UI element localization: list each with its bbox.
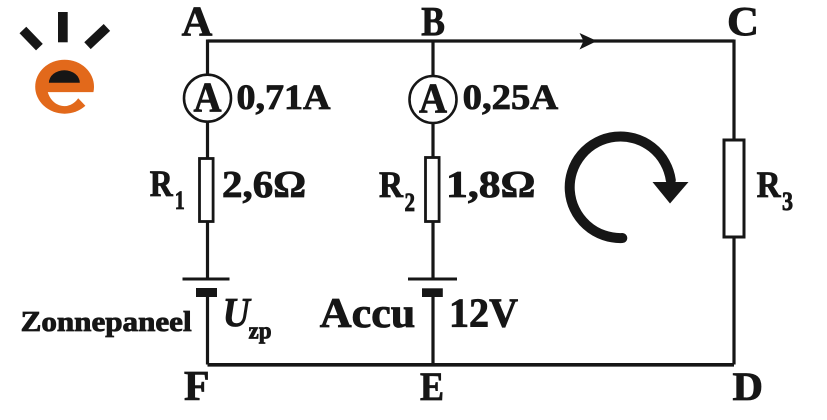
wire R3 to D: [732, 237, 735, 365]
ammeter A1: [184, 75, 231, 122]
svg-text:1: 1: [175, 186, 185, 215]
svg-text:D: D: [733, 364, 764, 409]
resistor R3 label: [757, 165, 793, 216]
resistor R2 label: [379, 165, 415, 217]
wire R1 to battery Uzp: [206, 222, 209, 280]
svg-text:12V: 12V: [449, 290, 518, 336]
label Uzp: [223, 289, 272, 345]
svg-text:R: R: [150, 164, 174, 205]
current direction arrow on wire B-C: [580, 33, 598, 50]
svg-text:C: C: [727, 0, 759, 44]
svg-text:Zonnepaneel: Zonnepaneel: [21, 307, 192, 338]
wire bottom F-E-D: [208, 363, 735, 367]
svg-text:A: A: [194, 76, 223, 122]
logo ray left: [23, 30, 40, 47]
wire B to ammeter A2: [431, 40, 434, 77]
wire R2 to battery Accu: [431, 222, 434, 280]
mesh current arrow (clockwise): [570, 136, 689, 238]
resistor R1: [200, 159, 214, 222]
logo e: [35, 60, 95, 114]
svg-text:2,6Ω: 2,6Ω: [222, 164, 306, 206]
svg-text:R: R: [757, 165, 782, 206]
battery Uzp (zonnepaneel): [183, 279, 230, 297]
resistor R1 label: [150, 164, 185, 215]
svg-text:B: B: [421, 0, 445, 44]
wire ammeter A2 to R2: [431, 123, 434, 157]
svg-text:3: 3: [782, 187, 793, 216]
logo ray middle: [58, 12, 68, 42]
wire A to ammeter A1: [206, 40, 209, 75]
wire battery Uzp to F: [206, 297, 209, 365]
resistor R3: [724, 140, 744, 237]
wire battery Accu to E: [431, 297, 434, 365]
svg-text:zp: zp: [249, 318, 272, 345]
resistor R2: [426, 158, 440, 222]
logo ray right: [88, 27, 107, 45]
svg-text:F: F: [184, 364, 210, 410]
svg-text:1,8Ω: 1,8Ω: [446, 164, 536, 206]
svg-text:E: E: [420, 364, 444, 409]
svg-text:A: A: [182, 0, 213, 46]
wire C to R3: [732, 40, 735, 140]
ammeter A2: [410, 76, 457, 123]
svg-text:A: A: [419, 77, 448, 123]
wire top A-B-C: [208, 39, 735, 42]
svg-text:0,71A: 0,71A: [237, 77, 331, 117]
svg-text:2: 2: [405, 188, 416, 217]
svg-text:Accu: Accu: [320, 290, 416, 337]
svg-text:R: R: [379, 165, 404, 206]
svg-text:0,25A: 0,25A: [463, 77, 559, 117]
wire ammeter A1 to R1: [206, 122, 209, 158]
battery Accu 12V: [408, 279, 457, 297]
